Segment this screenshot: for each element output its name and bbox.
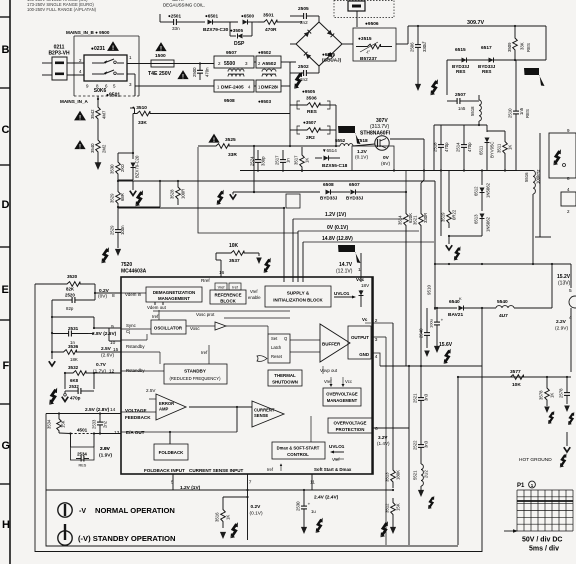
box gate return: [283, 208, 285, 218]
warning triangle mains: [107, 41, 119, 52]
capacitor 2521 3n3: [420, 366, 422, 388]
svg-text:Vref: Vref: [250, 289, 258, 294]
wire output pin3: [371, 336, 386, 338]
mosfet box: [352, 146, 394, 171]
svg-text:1n5: 1n5: [458, 106, 466, 111]
resistor 3516 1K: [223, 496, 248, 498]
svg-text:S0K6: S0K6: [94, 88, 107, 94]
resistor 3540 2M2: [96, 135, 101, 157]
svg-text:6511: 6511: [479, 145, 484, 155]
wire sync bundle: [51, 317, 53, 352]
choke 5500 windings: [228, 69, 244, 71]
filter 9502 box: [256, 56, 281, 68]
wire degauss stub: [159, 14, 161, 22]
block overvoltage mgmt: [323, 388, 361, 406]
gate coil 5552: [340, 144, 353, 146]
block supply init: [265, 286, 331, 307]
svg-text:1u: 1u: [311, 509, 316, 514]
border ruler line: [9, 0, 11, 564]
svg-text:Vref: Vref: [332, 457, 340, 462]
svg-text:CURRENT SENSE INPUT: CURRENT SENSE INPUT: [189, 468, 244, 473]
wire 5516 down: [532, 194, 534, 264]
svg-text:AMP: AMP: [159, 407, 169, 412]
svg-text:K: K: [459, 296, 462, 301]
connector 0211 B2P3-VH: [52, 57, 67, 80]
wire degauss down: [356, 11, 358, 27]
connector box small: [561, 192, 576, 206]
line y377: [458, 376, 571, 378]
svg-text:16: 16: [219, 270, 225, 276]
svg-text:3525: 3525: [225, 137, 236, 143]
wire 3510 right: [154, 113, 290, 115]
svg-text:5552: 5552: [335, 138, 346, 143]
svg-text:RES: RES: [482, 69, 491, 74]
svg-text:330R: 330R: [423, 213, 428, 223]
wire pin stubs: [121, 292, 146, 294]
svg-text:3506: 3506: [306, 96, 317, 102]
svg-text:PROTECTION: PROTECTION: [336, 427, 365, 432]
svg-text:9: 9: [111, 324, 114, 330]
svg-text:FOLDBACK: FOLDBACK: [159, 450, 184, 455]
capacitor 2530 1u: [303, 490, 305, 500]
block oscillator: [151, 320, 186, 334]
svg-text:BYD33J: BYD33J: [320, 196, 338, 201]
rail 309.7V: [408, 25, 546, 27]
wire bridge left: [290, 61, 296, 63]
bridge rectifier 6505 GBUAJ: [296, 22, 342, 66]
ruler tick: [0, 16, 10, 18]
svg-text:MANAGEMENT: MANAGEMENT: [327, 398, 358, 403]
svg-text:MC44603A: MC44603A: [121, 269, 147, 275]
svg-text:470R: 470R: [265, 27, 277, 33]
svg-text:2533: 2533: [92, 419, 97, 429]
black flag top right: [524, 68, 545, 86]
svg-text:5: 5: [171, 480, 174, 486]
ruler tick: [0, 403, 10, 405]
svg-text:1K: 1K: [550, 393, 555, 398]
svg-text:INITIALIZATION BLOCK: INITIALIZATION BLOCK: [273, 298, 323, 303]
svg-text:+: +: [308, 501, 311, 506]
svg-text:3532: 3532: [68, 365, 79, 370]
svg-text:Iref: Iref: [152, 314, 159, 319]
svg-text:5500: 5500: [224, 61, 235, 67]
diode 3505 DSP: [229, 22, 231, 36]
svg-text:2522: 2522: [413, 440, 418, 450]
svg-text:2531: 2531: [68, 326, 79, 331]
wire rref: [215, 253, 217, 260]
svg-text:100-250V FULL RANGE (A/PLATAN): 100-250V FULL RANGE (A/PLATAN): [27, 7, 97, 12]
wire 3511 top: [487, 130, 505, 132]
svg-text:6517: 6517: [481, 45, 492, 51]
svg-text:2540: 2540: [419, 328, 424, 338]
diode 6512 1N5062: [481, 171, 483, 186]
relay 9506 thermistor box: [353, 28, 396, 61]
svg-text:3: 3: [375, 337, 378, 343]
junction 482: [481, 307, 483, 309]
svg-text:BLOCK: BLOCK: [220, 299, 236, 304]
svg-text:82p: 82p: [66, 306, 74, 311]
svg-text:-V: -V: [79, 508, 86, 515]
transformer primary vertical: [434, 181, 436, 310]
transformer secondary line: [440, 171, 442, 237]
svg-text:(1.9V): (1.9V): [99, 453, 112, 459]
svg-text:50V / div DC: 50V / div DC: [522, 537, 562, 544]
wire ea out: [189, 406, 253, 408]
svg-text:OVERVOLTAGE: OVERVOLTAGE: [326, 392, 358, 397]
svg-text:2.2V: 2.2V: [556, 319, 567, 325]
svg-text:2510: 2510: [508, 108, 513, 118]
wire lower mains: [135, 85, 214, 87]
svg-text:3540: 3540: [90, 143, 95, 153]
ic MC44603A outline: [121, 277, 373, 474]
svg-text:UVLO1: UVLO1: [329, 444, 345, 449]
svg-text:STH8NA60FI: STH8NA60FI: [360, 131, 391, 137]
svg-text:F: F: [3, 360, 10, 372]
svg-text:33n: 33n: [172, 26, 180, 31]
zener BZX79-C20: [132, 153, 134, 159]
wire bridge bottom: [318, 66, 320, 73]
warning triangle 3530: [74, 140, 85, 150]
wire 9506 to rail: [396, 43, 408, 45]
wire vdem: [154, 302, 156, 305]
line y264: [435, 263, 571, 265]
capacitor 2540: [426, 308, 428, 320]
svg-text:Vovp out: Vovp out: [320, 368, 338, 373]
sense line y192: [233, 191, 320, 193]
svg-text:Rstandby: Rstandby: [126, 368, 145, 373]
svg-text:UVLO1: UVLO1: [334, 291, 350, 296]
svg-text:E: E: [2, 284, 9, 296]
svg-text:VOLTAGE: VOLTAGE: [125, 408, 147, 413]
ruler tick: [0, 483, 10, 485]
svg-text:100u: 100u: [429, 319, 434, 328]
capacitor 2518 470p: [440, 128, 442, 145]
svg-text:DSP: DSP: [234, 41, 245, 47]
svg-text:(12.1V): (12.1V): [336, 269, 353, 275]
ruler tick: [0, 246, 10, 248]
svg-text:0.2V: 0.2V: [251, 504, 262, 510]
svg-text:A5502: A5502: [262, 61, 276, 67]
capacitor 2506 330u: [417, 26, 419, 36]
comparator triangle: [215, 322, 226, 330]
diode 6513 1N5062: [480, 214, 485, 219]
svg-text:2K0: 2K0: [120, 164, 125, 172]
svg-text:●9506: ●9506: [365, 21, 379, 27]
wire vcc pin1: [360, 253, 362, 282]
svg-text:Vosc: Vosc: [190, 326, 200, 331]
svg-text:0.7V: 0.7V: [96, 362, 107, 368]
svg-text:!: !: [213, 138, 215, 144]
inductor 5516 100kHz: [517, 170, 533, 172]
svg-text:FEEDBACK: FEEDBACK: [125, 415, 151, 420]
svg-text:5516: 5516: [524, 172, 529, 182]
capacitor 2517 1n: [282, 150, 284, 160]
svg-text:SENSE: SENSE: [254, 413, 268, 418]
wire pin14: [46, 413, 121, 415]
wire mosfet tab: [390, 138, 424, 140]
svg-text:(313.7V): (313.7V): [370, 124, 390, 130]
line y366: [380, 365, 482, 367]
svg-text:!: !: [112, 45, 114, 52]
svg-text:470p: 470p: [444, 142, 449, 152]
svg-text:14: 14: [110, 407, 116, 413]
svg-text:9510: 9510: [427, 284, 432, 295]
svg-text:2524: 2524: [250, 156, 255, 166]
svg-text:●2501: ●2501: [168, 14, 181, 19]
svg-text:Iref: Iref: [267, 467, 274, 472]
svg-text:7: 7: [249, 480, 252, 486]
svg-text:2n2: 2n2: [300, 20, 308, 25]
svg-text:(0V): (0V): [98, 294, 107, 300]
filter DMF-2405 box: [214, 80, 254, 92]
svg-text:●0231: ●0231: [91, 46, 105, 52]
svg-text:T4E 250V: T4E 250V: [148, 71, 172, 77]
svg-text:330p: 330p: [261, 156, 266, 166]
svg-text:RES: RES: [525, 109, 530, 118]
svg-text:14.8V (12.8V): 14.8V (12.8V): [322, 236, 353, 242]
box 2534 RES: [70, 434, 72, 448]
capacitor 2524 330p: [253, 147, 255, 155]
svg-text:(GBUAJ): (GBUAJ): [322, 58, 342, 63]
wire 2506 down: [417, 56, 419, 84]
flash conn: [553, 149, 560, 165]
svg-text:B: B: [2, 44, 10, 56]
resistor 3509 33K RES: [514, 26, 516, 32]
flash 3512: [380, 521, 387, 537]
svg-text:3578: 3578: [539, 390, 544, 400]
svg-text:2.5V: 2.5V: [146, 388, 156, 393]
svg-text:●9503: ●9503: [258, 99, 271, 104]
block vref small: [215, 283, 227, 290]
svg-text:3521: 3521: [413, 215, 418, 225]
svg-text:0V: 0V: [383, 155, 390, 161]
resistor 3517 1K: [301, 147, 303, 150]
svg-text:82K: 82K: [66, 287, 75, 292]
svg-text:●9505: ●9505: [302, 89, 315, 94]
svg-text:2506: 2506: [410, 42, 415, 52]
svg-text:3520: 3520: [67, 274, 78, 279]
svg-text:180K: 180K: [396, 470, 401, 480]
svg-text:9508: 9508: [224, 98, 235, 104]
wire connector to switch: [67, 62, 84, 64]
aux coil 5518: [479, 100, 481, 121]
svg-text:3542: 3542: [90, 109, 95, 119]
svg-text:33K: 33K: [520, 42, 525, 50]
svg-text:SHUTDOWN: SHUTDOWN: [272, 380, 298, 385]
ground 3578: [544, 407, 550, 414]
block demagnetization management: [146, 287, 202, 302]
svg-text:7520: 7520: [121, 262, 132, 268]
wire pin2 down: [373, 322, 393, 324]
svg-text:1.2V (1V): 1.2V (1V): [325, 212, 346, 218]
wire pin6 right: [373, 427, 409, 429]
svg-text:309.7V: 309.7V: [467, 20, 484, 26]
wire: [97, 125, 99, 135]
svg-text:FOLDBACK INPUT: FOLDBACK INPUT: [144, 468, 185, 473]
resistor 3511 1K: [504, 131, 506, 135]
wire y210: [118, 207, 284, 209]
buffer triangle: [320, 324, 350, 362]
svg-text:0R22: 0R22: [452, 209, 457, 220]
svg-text:3n3: 3n3: [424, 393, 429, 401]
resistor 3534 15K: [58, 414, 60, 417]
svg-text:●3505: ●3505: [230, 28, 243, 33]
wire fuse to filter: [174, 63, 214, 65]
svg-text:CURRENT: CURRENT: [254, 408, 275, 413]
legend standby symbol: [58, 531, 72, 545]
svg-text:2n2: 2n2: [103, 420, 108, 428]
svg-text:1n: 1n: [286, 158, 291, 163]
wire Vcc to IC: [118, 206, 160, 208]
svg-text:330u: 330u: [422, 42, 427, 52]
svg-text:3577: 3577: [510, 369, 521, 375]
svg-text:2502: 2502: [298, 64, 309, 70]
svg-text:3501: 3501: [263, 13, 274, 19]
wire right edge: [570, 264, 572, 288]
transistor out circle: [569, 296, 576, 308]
svg-text:3n3: 3n3: [424, 440, 429, 448]
vert 458: [457, 377, 459, 545]
svg-text:!: !: [182, 74, 184, 80]
svg-text:3511: 3511: [497, 143, 502, 153]
svg-text:3536: 3536: [68, 344, 79, 349]
svg-text:0V (0.1V): 0V (0.1V): [327, 225, 348, 231]
svg-text:●3507: ●3507: [303, 120, 316, 125]
bracket 3506: [297, 101, 300, 109]
svg-text:2.9V: 2.9V: [100, 446, 111, 452]
wire switch out: [127, 63, 151, 65]
resistor 3530 2K0: [116, 156, 121, 180]
svg-text:BUFFER: BUFFER: [322, 342, 341, 347]
svg-text:Iref: Iref: [232, 286, 238, 290]
wire aux top: [470, 100, 479, 102]
wire bridge to 9506: [342, 43, 353, 45]
resistor 3528 100R: [176, 181, 181, 205]
flash 2529: [101, 247, 108, 263]
svg-text:BZX55-C18: BZX55-C18: [322, 163, 348, 169]
resistor 3521 330R: [419, 206, 424, 233]
bracket 3507: [297, 126, 300, 134]
wire bridge top: [290, 15, 295, 17]
line y490: [46, 489, 393, 491]
svg-text:2U2: 2U2: [424, 470, 429, 478]
svg-text:2578: 2578: [559, 388, 564, 398]
wire 3521 top: [423, 171, 425, 181]
flash top right: [430, 79, 437, 95]
svg-text:4501: 4501: [77, 428, 88, 433]
svg-text:6513: 6513: [474, 214, 479, 224]
block iref small: [229, 283, 241, 290]
svg-text:4: 4: [569, 315, 572, 321]
resistor 3514 620K: [405, 192, 407, 206]
wire diode row: [447, 59, 546, 61]
svg-text:1n5: 1n5: [519, 107, 524, 115]
svg-text:(0.1V): (0.1V): [355, 155, 368, 161]
flash 2530: [316, 518, 323, 533]
flash 5521: [428, 496, 434, 509]
ground 3519: [448, 236, 450, 244]
svg-text:Dmax & SOFT-START: Dmax & SOFT-START: [277, 446, 320, 451]
svg-text:Vref: Vref: [218, 286, 226, 290]
svg-text:BYV95C: BYV95C: [490, 142, 495, 158]
svg-text:2514: 2514: [456, 142, 461, 152]
scope trace: [517, 500, 573, 502]
svg-text:●3515: ●3515: [358, 36, 372, 42]
wire 3510 drop: [132, 114, 134, 154]
svg-text:470p: 470p: [70, 396, 81, 401]
warning triangle 3525: [208, 134, 219, 144]
ground arrow: [97, 157, 99, 163]
wire clamp bottom: [254, 170, 302, 172]
line y168: [440, 169, 442, 171]
wire 6507 right: [331, 191, 350, 193]
current sense triangle: [252, 401, 284, 427]
wire conn vert: [539, 133, 541, 237]
resistor 3519 0R22: [448, 171, 450, 207]
zener 18V: [359, 291, 364, 296]
svg-text:(1.7V): (1.7V): [93, 369, 106, 375]
svg-text:14.7V: 14.7V: [339, 262, 353, 268]
degauss connector dashed box: [334, 1, 394, 18]
svg-text:2520: 2520: [65, 293, 75, 298]
wire 35 to 3520: [35, 283, 44, 285]
svg-text:DMF28: DMF28: [261, 85, 277, 91]
inductor 5521 2U2: [420, 456, 422, 464]
resistor 3578 1K: [546, 377, 548, 382]
wire latch to buffer: [290, 339, 320, 341]
svg-text:2529: 2529: [110, 225, 115, 235]
svg-text:15.2V: 15.2V: [557, 274, 571, 280]
svg-text:MAINS_IN_B ● 9500: MAINS_IN_B ● 9500: [66, 30, 110, 35]
error amp triangle: [156, 394, 186, 420]
svg-text:DMF-2405: DMF-2405: [221, 85, 244, 91]
ground 3516: [220, 532, 226, 539]
capacitor 2500 470n: [199, 64, 201, 71]
svg-text:2500: 2500: [192, 67, 197, 77]
svg-text:Vc: Vc: [362, 317, 368, 322]
svg-text:2505: 2505: [298, 6, 309, 12]
scope grid: [516, 490, 518, 531]
svg-text:100n: 100n: [120, 225, 125, 235]
svg-text:▼6514: ▼6514: [322, 148, 337, 153]
svg-text:H: H: [2, 519, 10, 531]
wire foldback top: [169, 432, 171, 444]
svg-text:4: 4: [375, 354, 378, 360]
capacitor 2510 1n5 RES: [515, 60, 517, 103]
svg-text:STANDBY: STANDBY: [184, 369, 206, 374]
svg-text:12: 12: [109, 369, 115, 375]
wire vc pin2: [365, 322, 371, 324]
svg-text:2518: 2518: [433, 142, 438, 152]
svg-text:33R: 33R: [228, 152, 237, 158]
flash rref: [264, 258, 271, 273]
svg-text:DEGAUSSING COIL.: DEGAUSSING COIL.: [163, 3, 205, 8]
wire mains left: [42, 62, 52, 64]
svg-text:2530: 2530: [296, 501, 301, 511]
svg-text:Reset: Reset: [271, 354, 283, 359]
svg-text:3529: 3529: [110, 193, 115, 203]
svg-text:3530: 3530: [110, 164, 115, 174]
svg-text:BYD33J: BYD33J: [346, 196, 364, 201]
scope arrow: [504, 530, 516, 532]
svg-text:2M2: 2M2: [102, 144, 107, 153]
svg-text:BAV21: BAV21: [448, 312, 463, 318]
ground 2578: [564, 406, 570, 413]
svg-text:B2P3-VH: B2P3-VH: [48, 51, 70, 57]
svg-text:1K: 1K: [508, 145, 513, 150]
vert 386b: [385, 365, 387, 367]
ruler tick: [0, 319, 10, 321]
